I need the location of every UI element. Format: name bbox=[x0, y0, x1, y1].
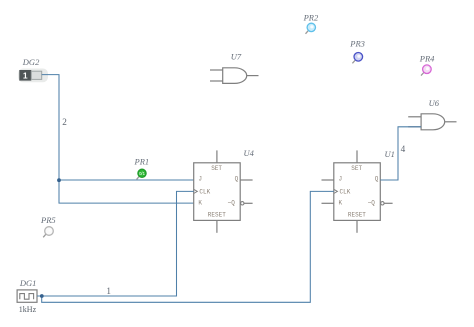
svg-text:U6: U6 bbox=[429, 98, 440, 108]
svg-text:J: J bbox=[339, 175, 343, 182]
svg-text:DG2: DG2 bbox=[22, 57, 40, 67]
svg-text:J: J bbox=[198, 175, 202, 182]
svg-text:SET: SET bbox=[211, 165, 222, 172]
svg-text:Q: Q bbox=[375, 175, 379, 182]
JK flip-flop U1 bbox=[322, 150, 393, 232]
clock source DG1 bbox=[17, 290, 37, 302]
svg-text:CLK: CLK bbox=[199, 189, 210, 196]
probe PR3 bbox=[352, 53, 362, 64]
svg-text:U4: U4 bbox=[244, 148, 255, 158]
AND gate U7 bbox=[210, 68, 259, 84]
svg-text:CLK: CLK bbox=[340, 189, 351, 196]
svg-text:1: 1 bbox=[106, 286, 111, 296]
digital constant DG2 bbox=[18, 69, 48, 83]
svg-text:Q: Q bbox=[235, 175, 239, 182]
wire net4 from U1 Q to U6 input bbox=[380, 127, 421, 180]
wire net1 from DG1 to U4 CLK bbox=[37, 191, 194, 296]
svg-text:~Q: ~Q bbox=[368, 200, 376, 207]
svg-text:PR3: PR3 bbox=[349, 39, 365, 49]
svg-text:U1: U1 bbox=[385, 149, 395, 159]
svg-text:SET: SET bbox=[351, 165, 362, 172]
wire net2 branch to U4 J bbox=[59, 179, 194, 181]
wire net2 from DG2 output bbox=[42, 75, 194, 204]
svg-text:DG1: DG1 bbox=[19, 278, 37, 288]
svg-text:4: 4 bbox=[401, 144, 406, 154]
svg-text:2: 2 bbox=[62, 117, 67, 127]
svg-text:RESET: RESET bbox=[208, 211, 226, 218]
svg-text:PR1: PR1 bbox=[134, 156, 150, 166]
svg-text:~Q: ~Q bbox=[228, 200, 236, 207]
probe PR2 bbox=[306, 23, 316, 34]
svg-text:K: K bbox=[198, 200, 202, 207]
AND gate U6 bbox=[408, 114, 456, 130]
probe PR4 bbox=[421, 65, 431, 76]
probe PR1 bbox=[137, 169, 146, 179]
svg-text:0/1: 0/1 bbox=[139, 171, 145, 176]
svg-text:RESET: RESET bbox=[348, 211, 366, 218]
junction on net2 bbox=[57, 178, 61, 182]
svg-text:PR2: PR2 bbox=[303, 13, 319, 23]
svg-text:1kHz: 1kHz bbox=[19, 305, 37, 314]
svg-text:PR5: PR5 bbox=[40, 215, 56, 225]
svg-text:1: 1 bbox=[23, 70, 28, 80]
junction on net1 bbox=[40, 294, 44, 298]
probe PR5 bbox=[43, 227, 53, 238]
svg-text:K: K bbox=[339, 200, 343, 207]
svg-text:U7: U7 bbox=[231, 52, 242, 62]
svg-text:PR4: PR4 bbox=[419, 53, 435, 63]
wire net1 branch to U1 CLK bbox=[42, 191, 334, 302]
JK flip-flop U4 bbox=[194, 150, 253, 232]
